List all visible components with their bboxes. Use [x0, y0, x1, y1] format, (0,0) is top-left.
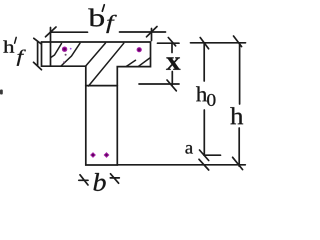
dimension x top tick	[168, 38, 175, 46]
dimension h'f top tick	[34, 38, 42, 44]
dimension b right stub	[110, 177, 119, 179]
bottom extension line	[117, 164, 245, 166]
dimension x bottom tick	[167, 80, 176, 91]
label b'f : b	[88, 9, 104, 27]
label h0 : 0 subscript	[207, 94, 215, 106]
hatch line 1	[51, 44, 62, 58]
dimension a upper tick	[200, 150, 209, 161]
dimension x dim line lower segment	[171, 72, 173, 85]
dimension h0/h top extension line	[191, 42, 246, 44]
rebar dot D4 (web bottom right)	[104, 152, 110, 158]
dimension a lower tick	[199, 159, 209, 170]
dimension b left tick	[80, 175, 88, 185]
dimension b'f left tick	[46, 27, 57, 37]
dimension b right tick	[111, 174, 119, 183]
hatch line 4	[89, 43, 124, 86]
hatch line 6	[139, 58, 150, 66]
dimension h top tick	[234, 36, 242, 47]
dimension b'f extension stub right	[151, 29, 153, 41]
hatch line 3	[85, 43, 105, 66]
dimension x top extension line	[158, 42, 180, 44]
label b'f : f subscript	[106, 15, 116, 33]
dimension h'f dim line	[37, 42, 39, 66]
dimension b'f extension stub left	[50, 28, 52, 66]
dimension b'f dim line right segment	[120, 31, 166, 33]
label h'f : h	[3, 40, 14, 52]
dimension b left stub	[79, 179, 88, 181]
dimension h0 dim line lower segment	[203, 110, 205, 155]
label h'f : f subscript	[17, 50, 26, 66]
dimension h dim line lower segment	[238, 128, 240, 166]
dimension h'f bottom tick	[34, 62, 42, 69]
dimension h dim line upper segment	[239, 43, 241, 104]
rebar dot D1 (flange left)	[62, 47, 72, 63]
left-edge scan smudge	[0, 90, 3, 95]
label b'f : prime	[102, 5, 104, 11]
label h0 : h	[196, 86, 207, 101]
label h	[230, 107, 243, 124]
label h'f : prime	[15, 37, 17, 43]
hatch line 2	[61, 43, 80, 66]
dimension h bottom tick	[233, 157, 243, 169]
compression zone bottom line	[86, 85, 118, 87]
dimension h0 top tick	[200, 38, 208, 49]
label b (bottom)	[94, 173, 106, 191]
rebar dot D2 (flange right)	[137, 47, 142, 52]
dimension h0 dim line upper segment	[203, 43, 205, 81]
label x	[166, 57, 180, 69]
dimension x dim line upper segment	[171, 44, 173, 53]
hatch line 5	[127, 60, 136, 66]
dimension x bottom extension line	[139, 83, 179, 85]
label a	[185, 145, 192, 154]
dimension h0 centroid extension line	[204, 154, 221, 156]
dimension b'f right tick	[147, 27, 158, 37]
T-section outline	[42, 42, 151, 165]
rebar dot D3 (web bottom left)	[90, 152, 96, 158]
dimension b'f dim line left segment	[50, 31, 87, 33]
